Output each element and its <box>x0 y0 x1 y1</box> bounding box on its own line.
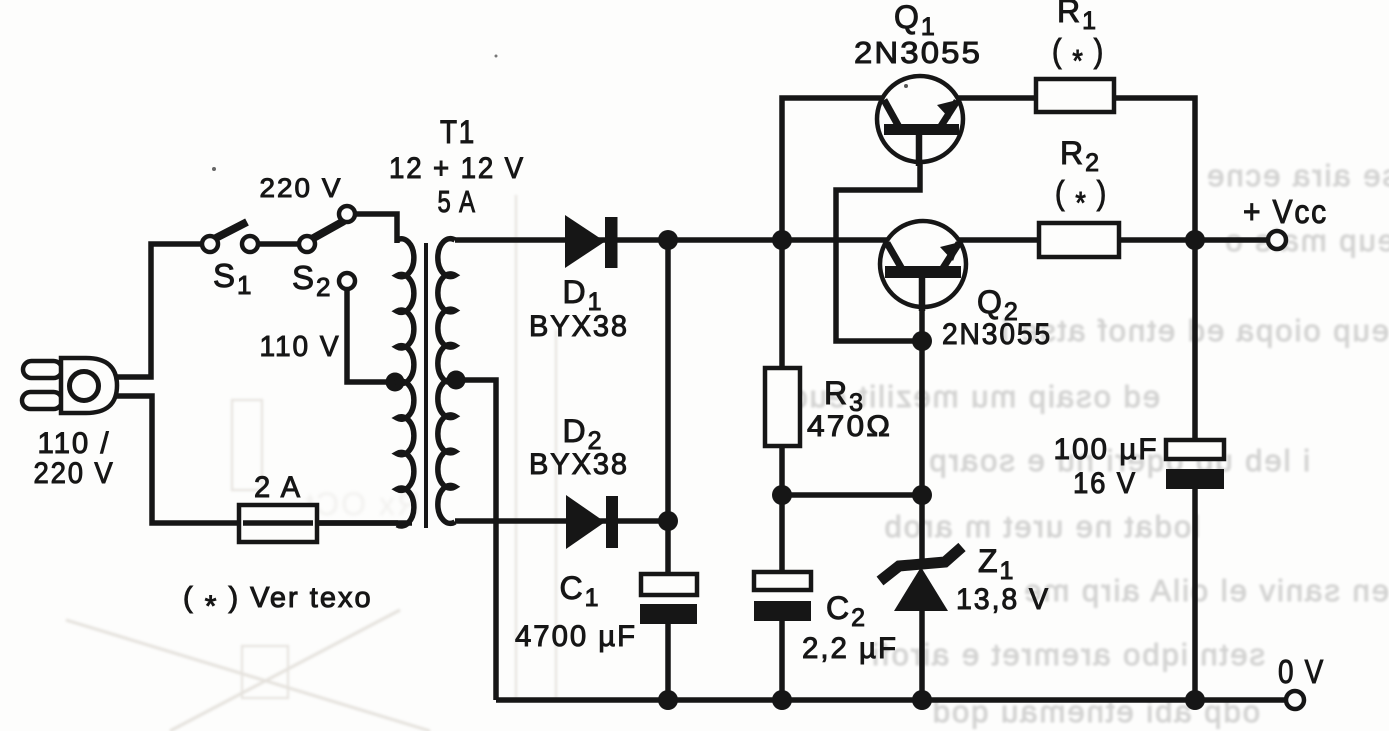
vertical base-zener line <box>919 278 925 700</box>
transistor Q2 emitter lead <box>943 243 959 268</box>
transistor Q2 base bar <box>885 266 961 278</box>
transistor Q1 emitter arrow <box>937 100 957 119</box>
node secondary tap <box>447 371 466 390</box>
svg-text:en saniv el oilA airp me: en saniv el oilA airp me <box>1022 573 1389 608</box>
fuse F1 box <box>239 505 317 542</box>
node D2 junction <box>658 511 678 531</box>
svg-text:470Ω: 470Ω <box>807 410 892 443</box>
plug face circle <box>70 372 99 401</box>
node C1 bottom <box>658 690 678 710</box>
bleed-through X shape bottom-left <box>66 195 556 731</box>
svg-text:13,8 V: 13,8 V <box>956 583 1050 616</box>
node zener top wire <box>912 485 932 505</box>
fuse wire through <box>243 520 313 526</box>
terminal +Vcc <box>1268 231 1286 249</box>
switch S1 arm <box>212 222 247 240</box>
bottom rail 0V <box>496 697 1286 703</box>
wire Q1 base path <box>836 135 922 341</box>
svg-text:se aira ecne: se aira ecne <box>1205 158 1389 193</box>
diode D2 triangle <box>566 495 605 549</box>
capacitor C3 top plate <box>1166 440 1224 459</box>
transistor Q1 base lead <box>916 133 923 166</box>
transformer core <box>424 243 428 528</box>
node base junction <box>912 331 932 351</box>
wire secondary centre tap to bottom rail <box>455 380 496 700</box>
node rail-R3 <box>772 230 792 250</box>
wire 110V tap to primary mid <box>347 289 394 382</box>
resistor R3 box <box>765 368 800 446</box>
switch S1 contact left <box>202 236 218 252</box>
vertical D1-D2-C1 line <box>665 240 671 700</box>
svg-text:T1: T1 <box>440 114 476 150</box>
paper speck 1 <box>904 84 908 88</box>
svg-text:BYX38: BYX38 <box>529 310 629 343</box>
zener Z1 triangle <box>894 567 948 611</box>
node C3 bottom <box>1185 690 1205 710</box>
paper speck 3 <box>495 55 498 58</box>
110V tap contact <box>339 273 355 289</box>
wire secondary bottom to D2 <box>455 518 668 524</box>
node D1 junction <box>658 230 678 250</box>
main rail top <box>455 237 1268 243</box>
capacitor C2 bottom plate <box>754 601 811 621</box>
wire 220V tap to primary top <box>355 214 397 243</box>
bleed-through text lines (reverse of page) <box>788 158 1389 729</box>
svg-text:110 /: 110 / <box>38 427 111 460</box>
capacitor C3 bottom plate <box>1166 469 1224 489</box>
svg-text:2N3055: 2N3055 <box>854 35 982 70</box>
svg-text:2N3055: 2N3055 <box>942 318 1052 351</box>
svg-text:2,2 µF: 2,2 µF <box>802 632 898 665</box>
node R3 bottom <box>772 485 792 505</box>
transistor Q2 emitter arrow <box>940 242 960 261</box>
svg-text:220 V: 220 V <box>34 457 115 490</box>
wire Q1 collector rail <box>782 98 1036 240</box>
node zener bottom <box>912 690 932 710</box>
transistor Q2 collector lead <box>887 243 902 269</box>
zener Z1 bar <box>880 547 962 581</box>
plug prong lower <box>22 392 62 409</box>
paper speck 2 <box>212 167 216 171</box>
switch S2 contact <box>299 236 315 252</box>
svg-text:setn iqbo aremret e airofi: setn iqbo aremret e airofi <box>870 637 1265 672</box>
svg-text:2 A: 2 A <box>254 471 302 504</box>
diode D1 triangle <box>565 215 605 268</box>
terminal 0V <box>1286 691 1304 709</box>
diode D2 cathode bar <box>606 496 618 548</box>
transistor Q2 body <box>880 221 966 307</box>
transistor Q1 emitter lead <box>941 101 957 126</box>
switch S1 contact right <box>242 236 258 252</box>
transistor Q1 body <box>877 76 963 162</box>
node Vcc junction <box>1185 230 1205 250</box>
transistor Q1 collector lead <box>884 100 899 127</box>
svg-text:lodat ne uret m arob: lodat ne uret m arob <box>883 509 1200 544</box>
plug prong upper <box>23 361 62 378</box>
transistor Q1 base bar <box>884 124 959 135</box>
plug body <box>61 358 117 413</box>
capacitor C1 top plate <box>641 574 697 595</box>
svg-text:110 V: 110 V <box>260 331 341 363</box>
capacitor C1 bottom plate <box>640 604 697 624</box>
wire R3 bottom to zener node <box>782 492 922 498</box>
resistor R2 box <box>1039 223 1119 257</box>
220V tap contact <box>339 206 355 222</box>
vertical R3-C2 line <box>779 240 785 700</box>
mains plug wires <box>100 244 412 523</box>
svg-text:BYX38: BYX38 <box>529 448 629 481</box>
node C2 bottom <box>772 690 792 710</box>
switch S2 arm <box>310 221 344 240</box>
wire primary bottom to fuse <box>315 520 398 526</box>
svg-text:100 µF: 100 µF <box>1054 433 1159 466</box>
svg-text:4700 µF: 4700 µF <box>515 620 637 653</box>
svg-text:16 V: 16 V <box>1073 467 1137 500</box>
transformer T1 secondary winding <box>438 239 455 524</box>
capacitor C2 top plate <box>754 572 811 590</box>
svg-text:+ Vcc: + Vcc <box>1243 193 1328 230</box>
svg-text:12 + 12 V: 12 + 12 V <box>389 152 525 185</box>
svg-text:0 V: 0 V <box>1278 653 1325 690</box>
resistor R1 box <box>1036 79 1114 112</box>
node primary tap <box>386 373 405 392</box>
svg-text:5 A: 5 A <box>438 184 477 219</box>
wire R1 to right vertical <box>1116 98 1195 700</box>
transformer T1 primary winding <box>397 239 414 526</box>
wire S1 to S2 <box>258 241 299 247</box>
svg-text:220 V: 220 V <box>260 173 343 203</box>
diode D1 cathode bar <box>605 217 618 268</box>
transistor Q2 base lead <box>919 276 926 311</box>
